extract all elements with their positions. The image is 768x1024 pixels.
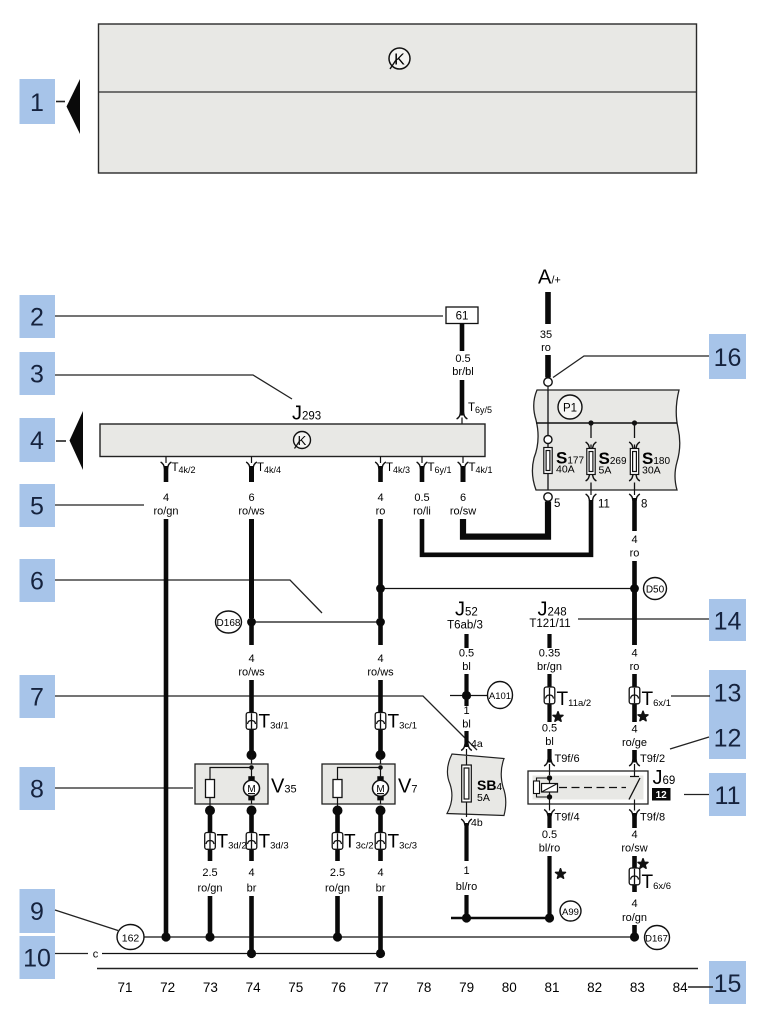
motor V7 box	[322, 764, 395, 804]
svg-text:83: 83	[630, 980, 645, 995]
svg-text:4: 4	[163, 492, 169, 504]
pointer 1	[20, 79, 81, 134]
svg-text:14: 14	[714, 608, 742, 636]
svg-text:3: 3	[30, 361, 44, 389]
svg-text:T6y/5: T6y/5	[468, 402, 492, 415]
svg-text:4: 4	[631, 724, 637, 736]
svg-text:T9f/6: T9f/6	[555, 753, 580, 765]
node D168	[216, 611, 242, 633]
pointer 5	[20, 484, 145, 527]
svg-text:bl: bl	[462, 719, 471, 731]
connector T3d/3	[246, 832, 288, 853]
svg-text:79: 79	[459, 980, 474, 995]
wire 4 ro from D50 to T6x/1	[630, 588, 640, 687]
wire 4 ro from fuse S180 pin 8	[630, 498, 640, 645]
svg-text:10: 10	[23, 945, 51, 973]
terminal T4k/4	[246, 457, 281, 476]
node A101	[488, 682, 513, 709]
wire into V7	[376, 730, 386, 764]
wire 4 br (track 74)	[247, 850, 257, 950]
wire 1 bl to SB4	[461, 705, 472, 756]
svg-text:4: 4	[248, 867, 254, 879]
svg-text:6: 6	[460, 492, 466, 504]
svg-text:T4k/2: T4k/2	[172, 462, 196, 475]
svg-text:J69: J69	[653, 767, 676, 789]
svg-text:11: 11	[715, 782, 741, 810]
pointer 13	[671, 670, 746, 714]
fuse S180 30A	[629, 423, 670, 490]
svg-text:4: 4	[631, 829, 637, 841]
svg-text:1: 1	[30, 89, 44, 117]
svg-text:ro: ro	[376, 506, 386, 518]
svg-text:4a: 4a	[471, 738, 483, 750]
node A99	[560, 901, 581, 921]
V35 output legs	[205, 798, 257, 833]
svg-text:40A: 40A	[556, 464, 575, 476]
svg-text:61: 61	[456, 311, 469, 323]
svg-text:T6ab/3: T6ab/3	[447, 620, 483, 632]
svg-text:12: 12	[656, 790, 668, 801]
svg-text:T9f/8: T9f/8	[640, 812, 665, 824]
node line D50	[376, 584, 639, 593]
wire 0.35 br/gn from J248	[537, 634, 562, 687]
svg-text:br/gn: br/gn	[537, 661, 562, 673]
svg-text:4: 4	[631, 648, 637, 660]
wire 4 br (track 77)	[376, 850, 386, 950]
node D167	[645, 926, 670, 950]
svg-text:D168: D168	[217, 618, 241, 629]
node line A99	[451, 913, 554, 922]
pointer 16	[553, 334, 746, 379]
ground rail c	[93, 949, 385, 961]
relay coil in J69	[542, 771, 558, 804]
wire 0.5 bl/ro from J69 T9f/4	[539, 804, 560, 916]
wire 1 bl/ro from SB4	[456, 819, 477, 916]
svg-text:ro/ws: ro/ws	[238, 506, 265, 518]
pointer 7	[20, 675, 478, 750]
svg-text:ro/ws: ro/ws	[367, 667, 394, 679]
connector T3c/3	[375, 832, 417, 853]
wire 2.5 ro/gn (track 76)	[325, 850, 350, 934]
svg-text:5: 5	[554, 498, 560, 510]
svg-text:T4k/1: T4k/1	[469, 462, 493, 475]
pointer 14	[578, 599, 746, 641]
svg-text:74: 74	[246, 980, 262, 995]
wire 6 ro/ws (track 74)	[238, 466, 265, 618]
svg-text:6: 6	[30, 568, 44, 596]
svg-text:2.5: 2.5	[202, 867, 217, 879]
svg-text:11: 11	[598, 499, 610, 511]
wire 2.5 ro/gn (track 73)	[197, 850, 222, 934]
motor M in V7	[373, 776, 389, 804]
pointer 10	[20, 936, 89, 979]
relay code 12 (black box)	[652, 788, 671, 801]
wire 4 ro/ws (track 77) to T3c/1	[367, 622, 394, 713]
P1 pin 11	[586, 490, 610, 511]
wiring harness box K (top)	[99, 24, 697, 173]
wire 4 ro/ge to J69 T9f/2	[622, 705, 647, 772]
connector T3c/2	[332, 832, 373, 853]
wire 0.5 bl from J52	[459, 634, 474, 705]
svg-text:bl: bl	[545, 736, 554, 748]
svg-text:T6y/1: T6y/1	[428, 462, 452, 475]
svg-text:V7: V7	[398, 776, 417, 798]
svg-text:ro/ge: ro/ge	[622, 737, 647, 749]
svg-text:80: 80	[502, 980, 517, 995]
node A101 junction	[450, 691, 487, 700]
svg-text:12: 12	[714, 725, 742, 753]
svg-text:T3d/2: T3d/2	[217, 832, 247, 853]
pointer 3	[20, 352, 293, 399]
svg-text:T3c/1: T3c/1	[388, 712, 418, 733]
svg-text:4: 4	[631, 898, 637, 910]
pointer 8	[20, 767, 194, 810]
relay J69 box	[528, 771, 648, 804]
designation P1	[558, 395, 582, 419]
wire 4 ro (track 77)	[376, 466, 386, 618]
P1 pin 5	[544, 493, 561, 510]
svg-text:77: 77	[374, 980, 389, 995]
connector T3d/1	[246, 712, 288, 733]
svg-text:T4k/4: T4k/4	[257, 462, 281, 475]
connector T11a/2	[544, 687, 591, 710]
wire 4 ro/gn to D167	[622, 886, 647, 935]
resistor in V35	[206, 780, 215, 798]
svg-text:K: K	[298, 433, 307, 448]
svg-text:P1: P1	[563, 403, 577, 415]
svg-text:16: 16	[714, 344, 742, 372]
relay dashed link	[559, 787, 626, 789]
svg-text:0.35: 0.35	[539, 648, 560, 660]
svg-text:2.5: 2.5	[330, 867, 345, 879]
svg-text:V35: V35	[271, 776, 297, 798]
node 162	[117, 925, 144, 950]
svg-text:D50: D50	[646, 585, 665, 596]
V7 internal wiring	[338, 765, 383, 779]
terminal T4k/1	[458, 457, 493, 476]
control unit J293 box	[100, 424, 485, 457]
svg-text:T9f/2: T9f/2	[640, 753, 665, 765]
pointer 12	[670, 714, 746, 759]
svg-text:ro/gn: ro/gn	[153, 506, 178, 518]
svg-text:br: br	[247, 883, 257, 895]
svg-text:73: 73	[203, 980, 218, 995]
svg-text:bl: bl	[462, 661, 471, 673]
wire 0.5 br/bl from 61 to J293 T6y/5	[452, 324, 473, 425]
svg-text:15: 15	[714, 970, 742, 998]
V35 internal wiring	[210, 765, 254, 779]
svg-text:J293: J293	[292, 403, 321, 425]
svg-text:8: 8	[641, 499, 647, 511]
ground rail 162 to D167	[145, 932, 640, 941]
wire 0.5 ro/li elbow to fuse S269 pin 11	[413, 466, 591, 555]
pointer 4	[20, 411, 84, 470]
pointer 6	[20, 559, 323, 613]
star mark (track 81)	[553, 712, 563, 721]
svg-text:0.5: 0.5	[542, 829, 557, 841]
motor M in V35	[244, 776, 260, 804]
svg-text:82: 82	[587, 980, 602, 995]
bus bar inside P1	[536, 420, 677, 425]
wire 4 ro/gn (track 72)	[153, 466, 178, 934]
svg-text:35: 35	[540, 329, 552, 341]
svg-text:30A: 30A	[642, 465, 661, 477]
relay coil resistor branch	[534, 778, 550, 797]
fuse S177 40A	[544, 390, 585, 490]
svg-text:7: 7	[30, 684, 44, 712]
svg-text:9: 9	[30, 898, 44, 926]
svg-text:T3c/3: T3c/3	[388, 832, 418, 853]
svg-text:2: 2	[30, 304, 44, 332]
svg-text:0.5: 0.5	[455, 353, 470, 365]
svg-text:5A: 5A	[599, 465, 612, 477]
node line D168	[247, 618, 385, 627]
wire 4 ro/sw from J69 T9f/8	[621, 804, 647, 868]
svg-text:br/bl: br/bl	[452, 366, 473, 378]
svg-text:84: 84	[673, 980, 689, 995]
bottom rule	[97, 968, 698, 970]
battery feed node A/+	[538, 267, 561, 391]
svg-text:1: 1	[463, 705, 469, 717]
svg-text:13: 13	[714, 680, 742, 708]
P1 pin 8	[629, 490, 647, 511]
resistor in V7	[333, 780, 342, 798]
svg-text:c: c	[93, 949, 99, 961]
svg-text:ro/gn: ro/gn	[197, 883, 222, 895]
connector T6x/6	[629, 868, 671, 893]
svg-text:4b: 4b	[471, 817, 483, 829]
pointer 15	[688, 961, 746, 1004]
svg-text:T3d/1: T3d/1	[259, 712, 289, 733]
pointer 2	[20, 295, 444, 338]
svg-text:T6x/6: T6x/6	[642, 872, 672, 893]
svg-text:162: 162	[122, 933, 140, 945]
svg-text:4: 4	[377, 653, 383, 665]
svg-text:T3c/2: T3c/2	[344, 832, 374, 853]
svg-text:T11a/2: T11a/2	[557, 689, 592, 710]
svg-text:81: 81	[544, 980, 559, 995]
track numbers 71-84	[117, 980, 688, 995]
svg-text:ro: ro	[630, 661, 640, 673]
connector T3c/1	[375, 712, 417, 733]
wire 0.5 bl to J69 T9f/6	[542, 705, 557, 772]
svg-text:4: 4	[631, 534, 637, 546]
svg-text:ro: ro	[541, 342, 551, 354]
svg-text:0.5: 0.5	[542, 723, 557, 735]
svg-text:A101: A101	[489, 691, 511, 702]
fuse S269 5A	[586, 423, 627, 490]
wire into V35	[247, 730, 257, 764]
svg-text:71: 71	[117, 980, 132, 995]
svg-text:A99: A99	[562, 907, 579, 918]
svg-text:4: 4	[377, 492, 383, 504]
svg-text:6: 6	[248, 492, 254, 504]
pointer 9	[20, 889, 119, 933]
svg-text:0.5: 0.5	[414, 492, 429, 504]
pointer 11	[684, 773, 746, 816]
svg-text:76: 76	[331, 980, 346, 995]
svg-text:ro/sw: ro/sw	[621, 843, 647, 855]
svg-text:0.5: 0.5	[459, 648, 474, 660]
svg-text:T121/11: T121/11	[529, 618, 570, 630]
svg-text:ro: ro	[630, 548, 640, 560]
symbol K in harness box	[389, 48, 410, 69]
svg-text:T6x/1: T6x/1	[642, 689, 672, 710]
svg-text:J52: J52	[455, 599, 478, 621]
motor V35 box	[195, 764, 268, 804]
star mark above A99	[556, 869, 566, 878]
connector T6x/1	[629, 687, 671, 710]
node D50	[644, 578, 667, 600]
star mark at T6x/6	[638, 859, 648, 868]
svg-text:5: 5	[30, 493, 44, 521]
relay switch contact in J69	[629, 771, 640, 804]
symbol K in J293	[294, 432, 311, 449]
svg-text:78: 78	[416, 980, 431, 995]
svg-text:br: br	[376, 883, 386, 895]
terminal T6y/1	[417, 457, 452, 476]
svg-text:ro/gn: ro/gn	[622, 912, 647, 924]
V7 output legs	[333, 798, 386, 833]
svg-text:T4k/3: T4k/3	[386, 462, 410, 475]
terminal T4k/3	[375, 457, 410, 476]
fuse holder SB4 (torn box)	[447, 754, 506, 817]
svg-text:ro/li: ro/li	[413, 506, 431, 518]
svg-text:72: 72	[160, 980, 175, 995]
svg-text:4: 4	[377, 867, 383, 879]
svg-text:A/+: A/+	[538, 267, 561, 289]
terminal T4k/2	[161, 457, 196, 476]
svg-text:4: 4	[248, 653, 254, 665]
svg-text:1: 1	[463, 865, 469, 877]
svg-text:T9f/4: T9f/4	[555, 812, 580, 824]
relay plate P1 (torn box)	[532, 390, 679, 490]
svg-text:ro/ws: ro/ws	[238, 667, 265, 679]
svg-text:bl/ro: bl/ro	[539, 843, 560, 855]
wire 4 ro/ws (track 74) to T3d/1	[238, 622, 265, 713]
connector T3d/2	[205, 832, 247, 853]
svg-text:D167: D167	[645, 934, 668, 945]
svg-text:4: 4	[30, 427, 44, 455]
svg-text:bl/ro: bl/ro	[456, 881, 477, 893]
svg-text:ro/gn: ro/gn	[325, 883, 350, 895]
wire 6 ro/sw elbow to fuse S177 pin 5	[450, 466, 548, 537]
svg-text:8: 8	[30, 776, 44, 804]
svg-text:ro/sw: ro/sw	[450, 506, 476, 518]
svg-text:5A: 5A	[477, 792, 490, 804]
terminal 61 box	[446, 307, 478, 324]
svg-text:75: 75	[288, 980, 303, 995]
svg-text:T3d/3: T3d/3	[259, 832, 289, 853]
star mark (track 83)	[638, 711, 648, 720]
